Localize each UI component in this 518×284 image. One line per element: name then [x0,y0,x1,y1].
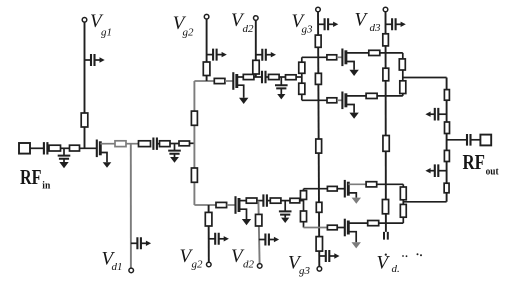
node N3 shunt capacitor [275,77,288,94]
wire [237,76,244,78]
wire [337,56,343,58]
bypass capacitor Vd2 [256,49,276,61]
resistor Rd3a [383,34,389,46]
ground [242,219,251,225]
resistor R18 [366,93,377,98]
wire Vd2b line [258,201,259,264]
ground [349,70,358,76]
resistor RL2 [191,168,197,182]
wire [190,142,195,144]
resistor R1 [49,145,61,151]
wire Vg2b line [208,205,210,262]
resistor R4 [139,141,151,147]
wire [61,147,70,149]
resistor RC1 [399,59,405,70]
bypass capacitor Vg2b [209,233,229,245]
wire [337,99,343,101]
wire [348,183,366,185]
resistor RT2 [445,122,450,134]
bypass capacitor out1 [425,108,446,121]
resistor R9 [269,74,280,79]
svg-text:RF: RF [20,165,42,189]
ground [239,98,248,104]
wire interstage vertical [193,81,195,205]
port RFin [19,143,30,154]
terminal Vd1 [129,268,134,273]
resistor RT3 [444,150,449,161]
wire [47,147,49,149]
resistor RB1 [300,191,306,200]
label Vd2 top [231,10,254,35]
wire [100,143,115,145]
svg-text:in: in [42,179,50,191]
bypass capacitor Vd2b [259,234,279,246]
wire [267,200,270,202]
resistor R18b [368,221,379,226]
resistor RT1 [444,90,449,101]
wire [227,204,236,206]
wire [30,147,44,149]
wire combiner bottom vertical [402,184,404,223]
wire output bottom [403,201,446,203]
resistor R17b [327,225,337,230]
label Vg2 bottom [180,246,204,271]
wire combiner top vertical [402,53,404,96]
wire [379,222,404,224]
ground [352,242,361,248]
wire Vd2 line [255,20,257,77]
capacitor Cout [467,134,471,146]
bypass capacitor Vd1 [131,237,151,249]
terminal Vd2 top [254,16,259,21]
wire Vg1 line [84,22,86,148]
transistor Q4 [342,92,354,113]
terminal Vg3 bottom [317,267,322,272]
resistor R7b [216,202,227,207]
wire lower branch b [304,227,328,229]
svg-text:g3: g3 [299,265,311,277]
label RFout [463,150,499,178]
wire [377,95,403,97]
transistor Q6 [345,219,356,243]
wire [225,80,233,82]
resistor Rg2b [205,212,212,226]
ground [352,198,361,204]
ground [349,113,358,119]
wire upper branch [302,56,327,58]
wire [170,143,179,145]
resistor Rd3d [382,200,388,214]
resistor RC3 [400,187,406,200]
ground [277,94,285,99]
resistor R14 [369,50,380,55]
resistor R8 [243,74,254,79]
resistor Rd3b [383,68,389,81]
transistor Q5 [345,180,357,198]
ground [281,218,289,223]
terminal Vd3 top [383,7,388,12]
wire [257,200,264,202]
wire [377,183,404,185]
resistor R10b [290,198,300,203]
terminal Vg1 [82,18,87,23]
port RFout [480,135,491,146]
wire Vg3 line [318,12,319,267]
resistor R13 [327,55,337,60]
wire output top [403,77,447,79]
capacitor C5b [263,194,267,206]
transistor Q3 [342,49,354,70]
svg-text:RF: RF [463,150,486,174]
ground [103,162,112,168]
node N2 shunt capacitor C4 [168,144,181,158]
wire output node [447,139,467,141]
label Vg3 bottom [288,252,311,277]
wire [471,139,481,141]
wire gate line bottom [194,204,216,206]
svg-text:g2: g2 [183,26,195,38]
resistor R14b [366,182,377,187]
wire [346,95,366,97]
resistor RA1 [299,62,305,73]
resistor R2 [70,145,80,151]
wire Vd3 line [385,12,387,232]
transistor Q1 [97,140,107,163]
svg-text:g1: g1 [101,26,112,38]
label Vd bottom [377,252,400,275]
wire [337,188,345,190]
node A vertical [301,57,303,100]
node N3b shunt capacitor [279,201,292,218]
resistor R8b [246,198,257,203]
svg-text:d1: d1 [112,261,123,273]
label Vd3 top [355,10,382,35]
resistor Rg3a [315,35,321,47]
wire [300,200,304,202]
wire [254,76,262,78]
resistor R3 [115,141,126,147]
resistor R5 [160,141,171,147]
resistor Rd3c [383,136,389,152]
node Vd3 bottom fork [384,232,388,240]
wire [348,222,367,224]
resistor Rg3e [316,237,322,252]
wire [346,52,369,54]
svg-text:g3: g3 [302,24,314,36]
label Vg3 top [292,11,314,36]
svg-text:d2: d2 [243,259,255,271]
wire gate line [194,80,214,82]
resistor Rg3d [316,202,322,212]
bypass capacitor Vg1 [85,54,105,66]
label RFin [20,165,50,191]
terminal Vg2 top [204,14,209,19]
ground [170,157,179,163]
wire [266,76,269,78]
wire Vd1 line [130,144,132,269]
resistor Rg3b [315,73,321,84]
resistor R7 [214,78,225,83]
resistor R17 [327,98,337,103]
wire [380,52,403,54]
terminal Vg3 top [316,7,321,12]
svg-text:out: out [486,166,499,178]
bypass capacitor Vg3 bottom [319,250,339,262]
resistor RC4 [400,204,406,217]
svg-text:g2: g2 [192,258,204,270]
bypass capacitor Vd3 top [386,18,406,30]
wire [80,147,97,149]
node artifact dots [385,253,422,257]
svg-text:d2: d2 [243,23,255,35]
resistor RC2 [400,81,406,94]
wire [157,143,160,145]
label Vg1 [90,11,112,38]
terminal Vg2 bottom [207,262,212,267]
bypass capacitor Vg2 [207,49,227,61]
resistor R9b [270,198,281,203]
transistor Q2b [236,196,247,219]
resistor Rg1 [81,113,88,127]
label Vg2 top [173,13,194,38]
label Vd2 bottom [231,246,255,271]
wire [279,76,285,78]
wire [337,227,345,229]
resistor RT4 [444,183,449,193]
resistor Rg2 [203,62,210,76]
resistor Rd2 [253,60,259,74]
wire Vg2 line [206,19,208,81]
capacitor C5 [262,71,266,83]
bypass capacitor out2 [425,164,446,177]
wire lower branch [302,99,327,101]
terminal Vd2 bottom [257,264,262,269]
resistor R6 [179,141,190,146]
svg-text:V: V [355,10,369,31]
resistor RL1 [191,111,197,125]
bypass capacitor Vg3 top [318,18,338,30]
wire [239,200,246,202]
resistor R13b [327,186,337,191]
resistor RA2 [299,83,305,94]
node N1 shunt capacitor C2 [58,148,71,162]
wire upper branch b [304,188,328,190]
wire [126,143,139,145]
label Vd1 [102,249,123,274]
resistor Rd2b [256,214,262,226]
svg-text:d3: d3 [370,22,382,34]
svg-text:V: V [377,252,391,273]
wire output trunk [446,78,448,202]
svg-text:d.: d. [392,263,400,275]
wire [281,200,290,202]
wire [296,76,302,78]
transistor Q2 [233,72,243,98]
resistor R10 [286,75,297,80]
node B vertical [303,189,305,228]
resistor RB2 [300,211,306,222]
ground [59,162,68,168]
capacitor C3 [153,138,157,150]
resistor Rg3c [316,139,322,153]
capacitor C1 (series input) [44,142,48,154]
